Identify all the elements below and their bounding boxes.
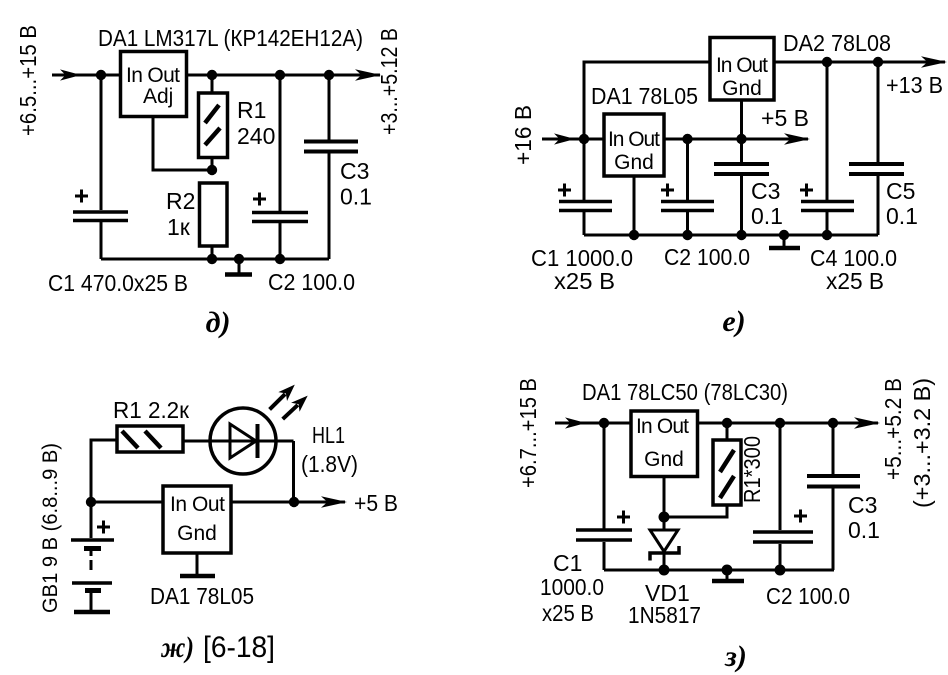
node junction ground [722,565,733,576]
node junction C2 top [275,70,285,80]
svg-text:C3: C3 [751,178,780,204]
svg-text:+16 В: +16 В [510,105,536,165]
capacitor C3 [807,423,860,570]
svg-text:Gnd: Gnd [644,448,684,471]
svg-text:+6.7...+15 В: +6.7...+15 В [515,378,541,488]
node junction C2 top [682,134,692,144]
svg-text:C3: C3 [848,492,877,518]
wire DA2 gnd pin [740,100,743,139]
capacitor C1 [558,139,612,235]
svg-text:GB1 9 В (6.8...9 В): GB1 9 В (6.8...9 В) [39,443,62,613]
node junction C3 top [828,418,838,428]
svg-text:R1 2.2к: R1 2.2к [113,397,190,423]
node junction input [599,418,609,428]
resistor R1 [664,423,741,517]
node junction C3 top [324,70,334,80]
svg-text:In Out: In Out [126,64,180,87]
node junction VD1 bottom [659,565,670,576]
arrow input [565,417,586,428]
resistor R1 [117,426,183,452]
op-amp U1 DA1 box [604,114,664,176]
svg-text:+5...+5.2 В: +5...+5.2 В [880,378,906,480]
svg-text:0.1: 0.1 [886,203,918,229]
LED HL1 [210,408,276,474]
capacitor C3 [714,139,769,235]
node junction C4 bottom [822,230,832,240]
svg-text:0.1: 0.1 [340,184,372,210]
svg-text:HL1: HL1 [312,422,345,448]
node junction left [86,497,96,507]
svg-text:DA1 LM317L (КР142ЕН12А): DA1 LM317L (КР142ЕН12А) [98,25,363,51]
ground [225,259,252,275]
op-amp U1 regulator box [631,411,698,477]
svg-text:DA1 78LC50 (78LC30): DA1 78LC50 (78LC30) [582,379,788,405]
svg-text:(+3...+3.2 В): (+3...+3.2 В) [909,378,935,508]
svg-text:д): д) [206,306,231,339]
svg-text:x25 В: x25 В [542,600,594,626]
resistor R2 [200,183,228,259]
ground [712,570,744,581]
wire R1 left [91,440,117,502]
svg-text:C2 100.0: C2 100.0 [664,244,750,270]
label HL1 (1.8V) [301,422,358,477]
wire to regulator [91,501,163,504]
svg-text:DA1 78L05: DA1 78L05 [591,83,698,109]
label C4 100.0 x25 V [810,245,897,294]
capacitor C3 [304,75,358,259]
svg-text:In Out: In Out [636,415,689,438]
wire main out [187,74,381,77]
arrow +5V [784,133,810,145]
svg-text:(1.8V): (1.8V) [301,451,358,477]
label C3 0.1 [848,492,880,543]
wire DA2 out [774,61,945,64]
capacitor C1 [576,423,632,570]
svg-text:DA2 78L08: DA2 78L08 [783,30,891,56]
svg-text:C2 100.0: C2 100.0 [268,269,355,295]
ground [769,235,800,248]
node junction R1 top [207,70,217,80]
node junction ground [779,230,789,240]
svg-text:In Out: In Out [170,493,225,516]
svg-text:0.1: 0.1 [751,203,783,229]
ground [180,553,215,576]
svg-text:1к: 1к [167,214,191,240]
wire DA1 gnd pin [633,176,636,235]
svg-text:+5 В: +5 В [761,105,809,131]
svg-text:DA1 78L05: DA1 78L05 [150,583,254,609]
node junction Adj [207,165,217,175]
svg-text:240: 240 [237,123,275,149]
node junction C2 bottom [682,230,692,240]
capacitor C2 [252,75,308,259]
wire input [542,138,604,141]
svg-text:+6.5...+15 В: +6.5...+15 В [15,25,41,136]
svg-text:R2: R2 [166,188,195,214]
svg-text:+13 В: +13 В [886,72,943,98]
svg-text:з): з) [724,640,747,673]
label C1 1000.0 x25 V [540,550,604,626]
arrow output [355,69,381,81]
label C3 0.1 [751,178,783,229]
svg-text:C1: C1 [553,550,582,576]
wire R1 to LED [183,440,294,443]
wire LED right down [292,441,295,502]
svg-text:Gnd: Gnd [722,77,762,100]
capacitor C2 [753,423,813,570]
node junction input [579,134,589,144]
svg-text:C3: C3 [340,158,369,184]
wire C1 branch [100,75,103,210]
node junction gnd DA1 [629,230,639,240]
label C3 0.1 [340,158,372,210]
node junction R2 bottom [207,254,217,264]
wire DA1 out [664,138,808,141]
capacitor C5 [849,62,904,235]
svg-text:1000.0: 1000.0 [540,574,604,600]
arrow output [854,417,880,429]
wire bottom [604,569,834,572]
battery GB1 [71,502,114,612]
wire Adj pin [153,117,212,171]
arrow +5V [321,496,347,508]
svg-text:[6-18]: [6-18] [203,631,275,664]
arrow +13V [921,56,947,68]
svg-text:R1*300: R1*300 [739,436,765,503]
wire out [231,501,345,504]
node junction C2 bottom [275,254,285,264]
arrow input [554,133,575,144]
label R2 1k [166,188,195,240]
diode VD1 [650,517,679,570]
svg-text:C5: C5 [886,178,915,204]
svg-text:Gnd: Gnd [614,151,654,174]
node junction out [289,497,299,507]
node junction ground [234,254,244,264]
node junction C3 top [736,134,746,144]
svg-text:x25 В: x25 В [554,268,615,294]
svg-text:In Out: In Out [716,54,768,77]
label R1 240 [237,97,275,149]
svg-text:+3...+5.12 В: +3...+5.12 В [376,28,402,135]
node junction C2 top [775,418,785,428]
node junction R1 top [722,418,732,428]
svg-text:ж): ж) [160,631,194,664]
node junction C3 bottom [736,230,746,240]
svg-text:x25 В: x25 В [826,268,884,294]
svg-text:C1 470.0x25 В: C1 470.0x25 В [48,270,188,296]
op-amp U1 regulator box DA1 [121,52,187,117]
label C1 1000.0 x25 V [531,245,633,294]
svg-text:Gnd: Gnd [177,522,217,545]
arrow input [60,69,81,80]
node junction C2 bottom [775,565,786,576]
wire DA1 gnd pin [663,477,666,518]
arrow LED light 1 [270,380,300,409]
wire top feed to DA2 [584,62,710,139]
capacitor C1 [73,190,128,260]
op-amp U1 regulator box [163,486,231,553]
label VD1 1N5817 [628,580,701,628]
wire bottom [584,234,878,237]
capacitor C4 [800,62,854,235]
svg-text:In Out: In Out [608,128,660,151]
svg-text:Adj: Adj [143,85,173,108]
node junction gnd [659,512,670,523]
resistor R1 [199,75,228,170]
svg-text:C2 100.0: C2 100.0 [766,583,850,609]
svg-text:е): е) [722,305,745,338]
svg-text:+5 В: +5 В [354,490,398,516]
capacitor C2 [661,139,714,235]
arrow LED light 2 [283,391,312,419]
wire main out [698,422,879,425]
node junction C5 top [873,57,883,67]
label C5 0.1 [886,178,918,229]
op-amp U2 DA2 box [710,38,774,101]
svg-text:0.1: 0.1 [848,517,880,543]
node junction C4 top [822,57,832,67]
wire bottom [101,258,329,261]
node junction input [96,70,106,80]
svg-text:R1: R1 [237,97,266,123]
svg-text:1N5817: 1N5817 [628,602,701,628]
wire input [52,74,120,77]
wire input [555,422,631,425]
